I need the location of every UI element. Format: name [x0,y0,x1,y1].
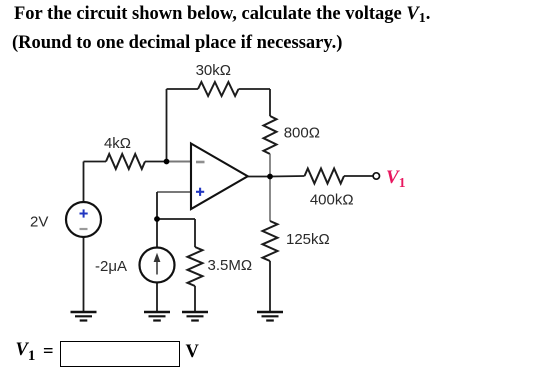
title line 1 [14,4,430,27]
resistor 3.5M zigzag [188,247,203,286]
svg-text:2V: 2V [30,214,48,231]
answer label V1 = [16,340,36,365]
answer unit V [186,342,199,363]
wire: 3.5M to ground [194,286,196,312]
wire: right vertical from feedback to 800 ohm [269,89,271,116]
op-amp U1 triangle [191,144,248,210]
title line 2 [12,33,342,54]
wire: plus branch vertical down to node [156,192,158,219]
op-amp plus sign [196,188,204,196]
op-amp minus sign [196,161,205,164]
resistor R feedback 30k zigzag [198,82,239,96]
wire: current source to ground [156,283,158,312]
svg-text:30kΩ: 30kΩ [196,62,231,79]
ground under 3.5M resistor [182,312,208,321]
wire: voltage source bottom lead to ground [83,237,85,312]
svg-text:125kΩ: 125kΩ [286,231,330,248]
wire: op-amp output to node [248,176,270,178]
voltage source VS 2V circle [66,202,101,237]
voltage source plus sign [80,209,88,217]
ground under voltage source [71,312,97,321]
svg-text:800Ω: 800Ω [284,124,320,141]
node C output junction [267,174,273,180]
node B non-inverting junction [154,216,160,222]
answer equals sign [43,342,54,363]
wire: op-amp plus pin stub [157,191,190,193]
svg-text:4kΩ: 4kΩ [104,135,131,152]
wire: feedback top left segment [167,88,199,90]
wire: feedback left vertical [166,89,168,162]
wire: 3.5M branch vertical lead [194,219,196,247]
current source arrow [154,253,161,275]
resistor 400k zigzag [305,169,345,184]
wire: 800 ohm lead to output node [269,154,271,177]
ground under current source [144,312,170,321]
wire: output node down to 125k [269,177,271,222]
wire: output node to 400k [270,175,305,178]
wire: node right to 3.5M branch [157,218,195,220]
resistor 4k zigzag [106,154,145,169]
svg-text:V1: V1 [386,167,406,190]
wire: voltage source top lead [83,162,85,203]
resistor 125k zigzag [263,221,278,261]
wire: inverting node to op-amp minus pin [167,161,191,163]
svg-text:3.5MΩ: 3.5MΩ [208,257,253,274]
terminal V1 open circle [373,173,379,179]
svg-text:-2μA: -2μA [95,258,127,275]
node A inverting input junction [164,159,170,165]
wire: 400k to terminal [344,175,373,177]
svg-text:400kΩ: 400kΩ [310,191,354,208]
ground under 125k resistor [257,312,283,321]
wire: node down to current source [156,219,158,248]
wire: input wire from source to 4k [84,161,107,163]
answer input box [60,341,180,367]
current source IS circle [140,248,175,283]
wire: 125k to ground [269,261,271,312]
wire: 4k to inverting node [145,161,167,163]
resistor 800 ohm zigzag [264,116,277,154]
wire: feedback top right segment [239,88,271,90]
voltage source minus sign [80,228,88,230]
